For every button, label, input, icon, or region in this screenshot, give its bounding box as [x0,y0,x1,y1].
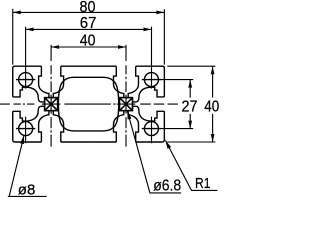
svg-text:27: 27 [182,99,198,116]
svg-text:R1: R1 [195,175,211,192]
svg-text:ø8: ø8 [18,181,36,198]
svg-text:80: 80 [80,0,96,16]
svg-text:ø6.8: ø6.8 [153,178,181,195]
svg-text:40: 40 [80,33,96,50]
svg-text:40: 40 [204,99,219,116]
svg-text:67: 67 [80,15,97,32]
